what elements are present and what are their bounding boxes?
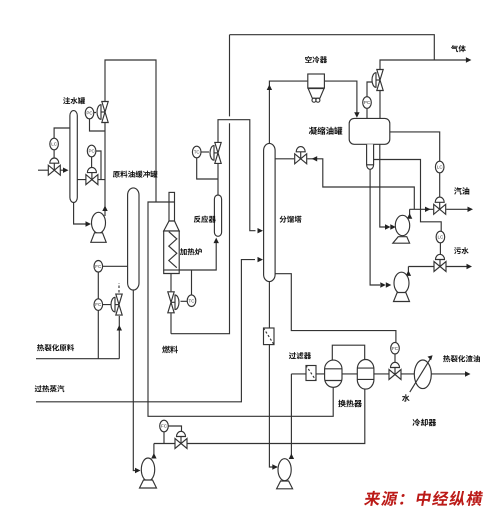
svg-text:LC: LC bbox=[437, 165, 444, 170]
svg-text:FC: FC bbox=[161, 424, 168, 429]
svg-text:PC: PC bbox=[364, 100, 371, 105]
svg-text:LC: LC bbox=[438, 235, 445, 240]
svg-text:PC: PC bbox=[88, 149, 95, 154]
svg-text:TC: TC bbox=[194, 150, 201, 155]
svg-text:FC: FC bbox=[95, 264, 102, 269]
svg-text:LC: LC bbox=[51, 142, 58, 147]
svg-text:PC: PC bbox=[86, 111, 93, 116]
svg-text:FC: FC bbox=[95, 302, 102, 307]
svg-text:FC: FC bbox=[392, 346, 399, 351]
svg-text:TC: TC bbox=[189, 298, 196, 303]
